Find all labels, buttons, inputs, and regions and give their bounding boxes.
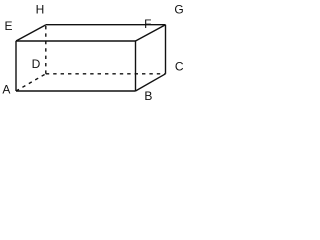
edge BC (bottom right depth) xyxy=(136,74,166,91)
edge DC hidden (dashed horizontal) xyxy=(46,73,166,75)
svg-text:E: E xyxy=(4,19,12,33)
edge HD hidden (dashed vertical) xyxy=(45,25,47,74)
edge GC (back right vertical) xyxy=(165,25,167,74)
svg-text:G: G xyxy=(174,3,183,17)
edge FB (front right vertical) xyxy=(135,41,137,91)
edge AB (front bottom) xyxy=(16,90,136,92)
edge EH (top left depth) xyxy=(16,25,46,41)
edge AD hidden (dashed depth) xyxy=(16,74,46,91)
edge EF (front top) xyxy=(16,40,136,42)
svg-text:F: F xyxy=(144,17,151,31)
svg-text:B: B xyxy=(144,89,152,103)
cuboid ABCDEFGH wireframe diagram xyxy=(0,0,189,106)
svg-text:H: H xyxy=(36,3,45,17)
edge HG (back top) xyxy=(46,24,166,26)
svg-text:C: C xyxy=(175,59,184,73)
svg-text:D: D xyxy=(32,57,41,71)
edge EA (front left vertical) xyxy=(15,41,17,91)
edge FG (top right depth) xyxy=(136,25,166,41)
svg-text:A: A xyxy=(2,83,10,97)
